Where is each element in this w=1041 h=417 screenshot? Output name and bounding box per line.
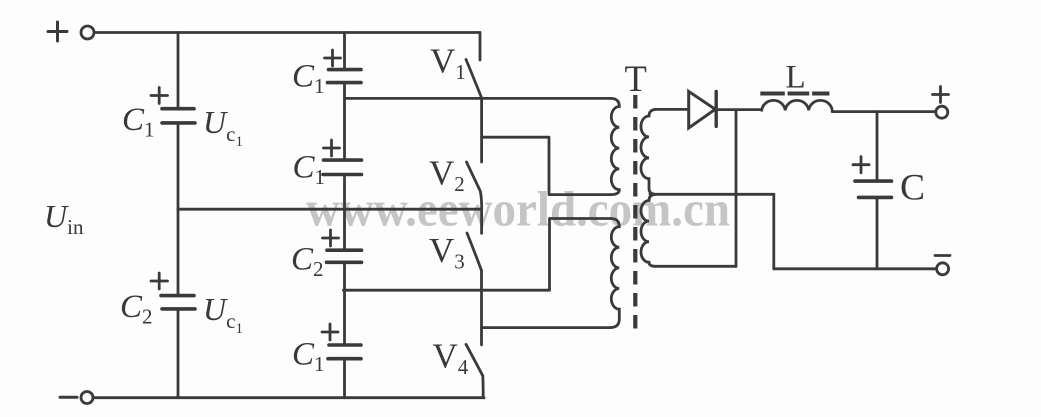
svg-text:C1: C1 <box>122 102 155 142</box>
capacitor C1b (middle column 2) <box>323 160 362 174</box>
svg-text:C1: C1 <box>293 150 326 190</box>
wire V3V4 branch to primary-2 bottom <box>482 326 611 329</box>
output terminal - circle <box>937 263 949 275</box>
node rail3 wire (cap junction 3 to transformer) <box>344 219 612 291</box>
wire output cap top <box>876 112 879 181</box>
wire left column lower <box>177 309 180 398</box>
svg-text:V4: V4 <box>433 337 469 380</box>
plus of C1b <box>324 140 340 156</box>
wire left column middle <box>177 123 180 295</box>
diode VD cathode bar <box>715 91 718 126</box>
switch V4 blade <box>466 344 483 397</box>
transformer secondary winding 2 <box>641 194 655 266</box>
output terminal plus sign <box>933 87 949 103</box>
svg-text:V2: V2 <box>429 154 465 197</box>
output terminal minus sign <box>935 254 950 257</box>
wire output bottom rail <box>774 267 937 270</box>
svg-text:T: T <box>625 58 647 99</box>
capacitor C (output) <box>855 181 892 197</box>
input terminal + circle <box>81 26 94 39</box>
switch V2 blade <box>467 162 482 209</box>
svg-text:Uc1: Uc1 <box>203 291 243 337</box>
wire middle column seg2 <box>343 83 346 160</box>
capacitor C1a (middle column 1) <box>328 70 362 83</box>
switch V3 stub <box>480 209 483 233</box>
svg-text:C: C <box>900 168 925 209</box>
capacitor C1 (input top) <box>162 109 195 123</box>
wire middle column seg1 <box>343 33 346 70</box>
wire middle column seg4 <box>343 262 346 344</box>
switch V1 stub <box>479 33 482 61</box>
wire middle column seg3 <box>343 175 346 250</box>
svg-text:C1: C1 <box>292 336 325 376</box>
wire centre tap down <box>772 194 775 268</box>
inductor core dashes <box>760 92 829 96</box>
switch V3 blade <box>467 233 482 271</box>
input terminal - circle <box>81 392 93 404</box>
svg-text:Uin: Uin <box>44 198 84 239</box>
wire output cap bottom <box>876 197 879 268</box>
wire V1V2 branch to primary bottom <box>482 137 611 194</box>
plus of C2 <box>151 273 168 289</box>
svg-text:Uc1: Uc1 <box>203 104 243 150</box>
wire freewheel vertical <box>735 110 738 267</box>
wire V3V4 node vertical <box>480 271 483 345</box>
wire top rail <box>94 31 480 34</box>
transformer primary winding 2 <box>611 219 620 328</box>
node rail2 wire (input cap midpoint) <box>178 208 482 211</box>
transformer secondary winding 1 <box>641 109 656 194</box>
node rail1 wire (cap junction 1 to transformer) <box>345 97 612 100</box>
svg-text:C1: C1 <box>292 59 325 99</box>
wire secondary bottom <box>655 265 736 268</box>
input terminal plus sign <box>48 22 67 41</box>
diode VD triangle <box>689 91 716 128</box>
svg-text:L: L <box>786 60 806 96</box>
wire left column upper <box>177 33 180 109</box>
wire secondary centre tap <box>650 193 774 196</box>
plus of C output <box>853 157 869 173</box>
input terminal minus sign <box>60 396 77 399</box>
inductor L winding <box>762 100 833 110</box>
wire V1V2 node vertical <box>480 98 483 162</box>
switch V1 blade <box>466 60 482 99</box>
wire secondary top to diode <box>656 108 689 111</box>
plus of C1c <box>322 324 338 340</box>
svg-text:C2: C2 <box>120 289 153 329</box>
svg-text:V1: V1 <box>430 42 466 85</box>
plus of C1a <box>325 50 341 66</box>
capacitor C1c (middle column 4) <box>328 345 361 359</box>
plus of C1 <box>151 88 168 104</box>
wire middle column seg5 <box>343 359 346 398</box>
transformer core dashed <box>633 95 637 331</box>
capacitor C2a (middle column 3) <box>327 250 362 262</box>
capacitor C2 (input bottom) <box>161 296 195 309</box>
plus of C2a <box>323 230 339 246</box>
svg-text:C2: C2 <box>291 242 324 282</box>
wire bottom rail <box>93 396 484 399</box>
wire inductor to + output <box>832 110 935 113</box>
output terminal + circle <box>936 106 948 118</box>
wire diode to inductor <box>716 108 762 111</box>
svg-text:V3: V3 <box>429 231 465 274</box>
transformer primary winding 1 <box>611 98 619 194</box>
